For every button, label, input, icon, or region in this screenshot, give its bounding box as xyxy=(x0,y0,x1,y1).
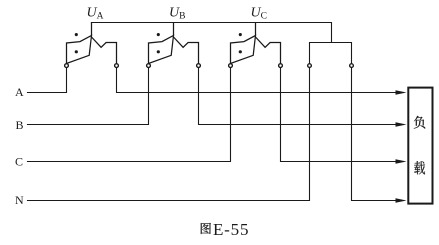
voltage coil (parallelogram) of UA xyxy=(67,36,92,64)
node N / wire: neutral from source up to link xyxy=(28,68,310,201)
arrow into load (A) xyxy=(396,90,407,95)
node B / wire: phase B from source xyxy=(28,68,149,125)
terminal circle (right) of UB xyxy=(197,64,201,68)
wire: link output down to load N xyxy=(352,68,399,201)
polarity dot (voltage coil) of UB xyxy=(157,50,160,53)
svg-text:A: A xyxy=(15,85,24,99)
terminal circle (neutral link, left) xyxy=(308,64,312,68)
polarity dot (current coil) of UC xyxy=(239,33,242,36)
value label 载 (load, second char) xyxy=(414,161,425,174)
wire: bus drop into meter UB xyxy=(173,22,175,36)
watt-hour meter UB xyxy=(147,22,201,68)
arrow into load (N) xyxy=(396,198,407,203)
current coil (zigzag) of UB xyxy=(174,37,199,64)
watt-hour meter UA xyxy=(65,22,119,68)
wire: voltage-coil common bus xyxy=(92,23,332,43)
caption 图E-55 xyxy=(201,223,211,234)
watt-hour meter UC xyxy=(229,22,283,68)
wire: neutral link bracket xyxy=(310,43,352,64)
wire: bus drop into meter UA xyxy=(91,22,93,36)
node C / wire: phase C from source xyxy=(28,68,231,162)
value label 负 (load, first char) xyxy=(414,116,425,129)
polarity dot (current coil) of UA xyxy=(75,33,78,36)
svg-text:B: B xyxy=(16,118,24,132)
current coil (zigzag) of UA xyxy=(92,37,117,64)
voltage coil (parallelogram) of UB xyxy=(149,36,174,64)
current coil (zigzag) of UC xyxy=(256,37,281,64)
wire: meter UB output down to line B xyxy=(199,68,399,125)
wire: bus drop into meter UC xyxy=(255,22,257,36)
polarity dot (voltage coil) of UC xyxy=(239,50,242,53)
svg-text:N: N xyxy=(15,193,24,207)
terminal circle (left) of UB xyxy=(147,64,151,68)
load box 负载 xyxy=(408,88,432,204)
wire: meter UC output down to line C xyxy=(281,68,399,162)
polarity dot (voltage coil) of UA xyxy=(75,50,78,53)
terminal circle (neutral link, right) xyxy=(350,64,354,68)
polarity dot (current coil) of UB xyxy=(157,33,160,36)
voltage coil (parallelogram) of UC xyxy=(231,36,256,64)
terminal circle (right) of UC xyxy=(279,64,283,68)
arrow into load (B) xyxy=(396,122,407,127)
wire: meter UA output down to line A xyxy=(117,68,399,93)
terminal circle (right) of UA xyxy=(115,64,119,68)
terminal circle (left) of UC xyxy=(229,64,233,68)
svg-text:E-55: E-55 xyxy=(213,220,249,239)
node A / wire: phase A from source xyxy=(28,68,67,93)
arrow into load (C) xyxy=(396,159,407,164)
terminal circle (left) of UA xyxy=(65,64,69,68)
svg-text:C: C xyxy=(15,155,23,169)
